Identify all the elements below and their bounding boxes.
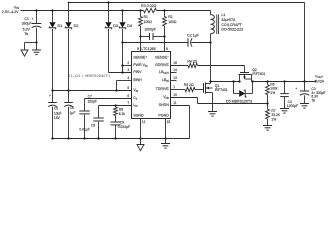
resistor R3 0.02 ohm	[144, 8, 157, 12]
svg-text:R4 2Ω: R4 2Ω	[187, 59, 197, 63]
svg-text:33µH/7A: 33µH/7A	[221, 18, 236, 22]
capacitor C6 1uF	[68, 91, 70, 103]
svg-text:13: 13	[173, 76, 177, 80]
node junction C3 and pump line	[303, 80, 305, 82]
node junction R6 divider	[266, 80, 268, 82]
wire C8 drop	[98, 106, 100, 119]
svg-text:PGND: PGND	[158, 114, 169, 118]
wire D3 to PINV pin 3	[108, 29, 110, 73]
svg-text:C9: C9	[120, 121, 124, 125]
capacitor C9 0.033uF	[111, 121, 121, 123]
resistor R6 100k	[267, 82, 269, 85]
node junction SGND gnd	[139, 137, 141, 139]
node junction sense- filter	[163, 35, 165, 37]
node junction C8 gnd	[97, 137, 99, 139]
wire C1 down	[36, 43, 38, 51]
node junction PINV wire	[121, 71, 123, 73]
wire VFB pin 10 to divider	[171, 97, 198, 99]
wire sense+ to pin 9	[140, 37, 142, 52]
wire PGND pin 15	[165, 119, 167, 139]
svg-text:SENSE+: SENSE+	[133, 56, 147, 60]
node junction C7 gnd	[83, 137, 85, 139]
wire BINH pin 4	[116, 81, 118, 91]
ground at C3	[300, 103, 309, 105]
wire VOUT rail	[253, 81, 317, 83]
wire D4 node to PWR VIN pin 2	[122, 43, 124, 66]
svg-text:C6: C6	[70, 106, 74, 110]
node junction D2 at VIN wire	[67, 89, 69, 91]
inductor L1 33uH	[210, 11, 212, 15]
svg-text:R5 2Ω: R5 2Ω	[184, 83, 194, 87]
svg-text:C7: C7	[88, 95, 92, 99]
wire LBIN stub pin 13	[171, 80, 177, 82]
wire charge pump top line	[69, 2, 305, 4]
svg-text:BINH: BINH	[133, 78, 142, 82]
svg-text:5V/2A: 5V/2A	[315, 79, 325, 83]
svg-text:5: 5	[127, 86, 129, 90]
svg-text:DO-5022-223: DO-5022-223	[221, 28, 243, 32]
svg-text:+: +	[295, 87, 297, 91]
wire R4 to Q2 gate	[198, 65, 245, 67]
svg-text:100Ω: 100Ω	[144, 20, 153, 24]
svg-text:15: 15	[167, 120, 171, 124]
svg-text:16V: 16V	[54, 116, 61, 120]
capacitor C8 0.01uF	[93, 117, 104, 119]
capacitor C7 220pF	[79, 110, 90, 112]
svg-text:1200pF: 1200pF	[287, 104, 298, 108]
svg-text:C5: C5	[54, 107, 58, 111]
wire L1 to switch node	[210, 43, 212, 82]
transistor Q2 IRF7401	[240, 72, 249, 74]
node junction D1 at VIN wire	[51, 89, 53, 91]
wire D2 to C6	[68, 29, 70, 91]
svg-text:SHDN: SHDN	[159, 103, 170, 107]
svg-text:330µF: 330µF	[22, 21, 32, 25]
diode D4	[122, 11, 124, 23]
svg-text:10µF: 10µF	[54, 111, 62, 115]
resistor R2 100 ohm	[164, 11, 166, 17]
node junction C2 at L1	[209, 41, 211, 43]
capacitor C1 330uF	[36, 11, 38, 24]
svg-text:R1: R1	[144, 15, 148, 19]
wire CT pin 6 to C7	[85, 98, 132, 100]
node junction D1	[51, 9, 53, 11]
diode D3	[108, 3, 110, 23]
svg-text:14: 14	[173, 68, 177, 72]
svg-text:1000pF: 1000pF	[144, 27, 156, 31]
node junction R8 tap	[114, 104, 116, 106]
ground at R7	[263, 125, 272, 127]
node junction D4 C2	[121, 41, 123, 43]
svg-text:1%: 1%	[271, 117, 276, 121]
node junction Q2 source D5 cathode	[251, 80, 253, 82]
node junction R6 R7	[266, 102, 268, 104]
ground signal (open triangle) at SGND	[140, 139, 142, 145]
svg-text:Ta: Ta	[311, 98, 315, 102]
svg-text:8: 8	[166, 47, 168, 51]
svg-text:3: 3	[127, 68, 129, 72]
svg-text:R2: R2	[168, 15, 172, 19]
svg-text:D2: D2	[74, 24, 79, 28]
svg-text:6.2k: 6.2k	[119, 112, 126, 116]
svg-text:+: +	[49, 94, 51, 98]
svg-text:GDRIVE: GDRIVE	[155, 63, 169, 67]
wire charge pump drop to VOUT	[304, 3, 306, 82]
wire sense- to pin 8	[164, 37, 166, 52]
svg-text:LTC1266: LTC1266	[141, 47, 155, 51]
wire PWR VIN to PINV	[122, 66, 124, 73]
svg-text:L1: L1	[221, 13, 225, 17]
svg-text:6.3V: 6.3V	[23, 28, 31, 32]
ground at C4	[280, 108, 289, 110]
svg-text:6: 6	[127, 94, 129, 98]
capacitor C4 1200pF	[284, 82, 286, 94]
transistor Q1 IRF7401	[203, 83, 205, 93]
svg-text:4: 4	[127, 76, 129, 80]
svg-text:11: 11	[173, 101, 177, 105]
svg-text:IRF7401: IRF7401	[215, 88, 228, 92]
svg-text:C1: C1	[24, 17, 29, 21]
wire VIN pin 5 feed	[53, 90, 132, 92]
svg-text:D5 MBRS120T3: D5 MBRS120T3	[226, 100, 252, 104]
capacitor 1000pF sense filter	[141, 36, 150, 38]
ground at C1	[32, 49, 41, 51]
node junction D5 anode	[232, 80, 234, 82]
svg-text:1: 1	[173, 85, 175, 89]
ground chassis (open triangle) at C1	[21, 50, 28, 56]
wire ITH pin 7	[99, 105, 132, 107]
svg-text:C2 1µF: C2 1µF	[187, 34, 200, 38]
svg-text:D1: D1	[58, 24, 63, 28]
ground at Q1 source	[208, 111, 217, 113]
svg-text:SENSE–: SENSE–	[155, 56, 169, 60]
svg-text:IRF7401: IRF7401	[252, 72, 265, 76]
svg-text:9: 9	[137, 47, 139, 51]
svg-text:2: 2	[127, 61, 129, 65]
node junction C5 gnd	[51, 137, 53, 139]
resistor R5 2 ohm	[185, 87, 195, 91]
capacitor C3 330uF x3	[304, 82, 306, 92]
diode D1	[52, 11, 54, 23]
svg-text:D1–D4 = MBRS0530T1: D1–D4 = MBRS0530T1	[68, 74, 111, 78]
node junction Q2 drain	[238, 80, 240, 82]
resistor R7 33.2k	[267, 104, 269, 110]
wire VIN rail right of R3	[157, 10, 211, 12]
node junction BINH tap	[115, 89, 117, 91]
svg-text:2.5V–4.2V: 2.5V–4.2V	[2, 10, 19, 14]
node junction D4	[121, 9, 123, 11]
node junction sense+ filter	[139, 35, 141, 37]
resistor R8 6.2k	[115, 106, 117, 108]
wire GDRIVE pin 16	[171, 65, 189, 67]
svg-text:12: 12	[142, 120, 146, 124]
svg-text:Ta: Ta	[24, 32, 28, 36]
svg-text:C8: C8	[91, 124, 95, 128]
node junction C1 ground split	[35, 41, 37, 43]
svg-text:16: 16	[173, 61, 177, 65]
node junction D3 top	[107, 1, 109, 3]
wire SHDN pin 11 to ground	[171, 105, 190, 107]
svg-text:0.033µF: 0.033µF	[118, 125, 130, 129]
node junction C9 gnd	[114, 137, 116, 139]
wire TDRIVE pin 1	[171, 89, 186, 91]
node junction C1	[35, 9, 37, 11]
svg-text:TDRIVE: TDRIVE	[156, 87, 170, 91]
svg-text:0.01µF: 0.01µF	[79, 128, 89, 132]
svg-text:100Ω: 100Ω	[168, 20, 177, 24]
svg-text:R8: R8	[119, 107, 123, 111]
node junction R2	[163, 9, 165, 11]
svg-text:220pF: 220pF	[88, 99, 97, 103]
svg-text:COILCRAFT: COILCRAFT	[221, 23, 242, 27]
diode D2	[68, 3, 70, 23]
svg-text:1µF: 1µF	[70, 111, 76, 115]
resistor R4 2 ohm	[188, 63, 198, 67]
wire ground rail	[53, 138, 190, 140]
wire SGND pin 12	[140, 119, 142, 139]
node junction L1 Q1 drain	[209, 80, 211, 82]
svg-text:10: 10	[173, 93, 177, 97]
node junction C4	[283, 80, 285, 82]
svg-text:SGND: SGND	[133, 114, 144, 118]
wire R5 to Q1 gate	[195, 89, 204, 91]
wire D1 to C5	[52, 29, 54, 91]
svg-text:7: 7	[127, 101, 129, 105]
svg-text:1%: 1%	[270, 91, 275, 95]
wire switch node rail	[211, 81, 240, 83]
svg-text:R3 0.02Ω: R3 0.02Ω	[141, 4, 157, 8]
resistor R1 100 ohm	[140, 11, 142, 17]
ground at PGND	[165, 139, 167, 144]
wire LBOUT stub pin 14	[171, 72, 177, 74]
svg-text:PINV: PINV	[133, 70, 142, 74]
svg-text:D3: D3	[113, 24, 118, 28]
wire D4 to C2 node	[122, 29, 124, 43]
capacitor C5 10uF	[52, 91, 54, 103]
wire VIN rail	[21, 10, 144, 12]
capacitor C2 1uF	[123, 42, 189, 44]
node junction PWR VIN tap	[121, 64, 123, 66]
node junction C6 gnd	[67, 137, 69, 139]
wire C1 to grounds	[25, 42, 37, 44]
node junction R1	[139, 9, 141, 11]
diode D5 MBRS120T3	[233, 82, 235, 94]
svg-text:D4: D4	[127, 24, 132, 28]
node junction PGND gnd	[164, 137, 166, 139]
op-amp U1 LTC1266 box	[132, 52, 171, 119]
